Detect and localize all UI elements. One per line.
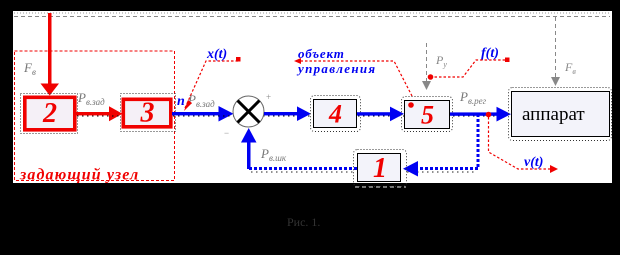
svg-text:аппарат: аппарат [522, 104, 585, 125]
svg-text:управления: управления [296, 61, 376, 76]
svg-text:3: 3 [140, 98, 155, 129]
svg-text:f(t): f(t) [481, 46, 499, 61]
svg-text:+: + [266, 92, 271, 102]
svg-text:задающий узел: задающий узел [19, 167, 139, 184]
svg-text:4: 4 [328, 100, 342, 129]
svg-text:объект: объект [298, 46, 345, 61]
svg-text:2: 2 [42, 98, 57, 129]
svg-text:1: 1 [373, 153, 387, 184]
svg-text:x(t): x(t) [206, 47, 227, 62]
svg-text:Рис. 1.: Рис. 1. [287, 215, 320, 229]
svg-text:−: − [224, 128, 229, 138]
svg-text:v(t): v(t) [524, 155, 543, 170]
svg-text:5: 5 [421, 101, 434, 130]
svg-text:п: п [177, 94, 185, 109]
